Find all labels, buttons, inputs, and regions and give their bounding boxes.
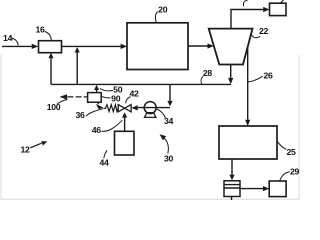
wire separator to box 29 [240, 186, 269, 191]
svg-text:14: 14 [3, 33, 13, 43]
svg-text:30: 30 [164, 154, 174, 164]
wire box 90 to coil arrow [96, 102, 104, 109]
svg-text:16: 16 [35, 25, 45, 35]
pump 34 [144, 102, 156, 118]
svg-text:100: 100 [47, 102, 61, 112]
wire 20 to turbine 22 [188, 43, 214, 48]
leader 90 [102, 96, 110, 98]
box 29 [269, 181, 286, 197]
leader arrow 30 [160, 134, 169, 153]
wire turbine exhaust 28 [228, 65, 233, 85]
turbine 22 [209, 29, 253, 65]
leader 26 [248, 76, 263, 82]
wire valve to box 44, arrow 46 [122, 112, 127, 131]
leader 44 [104, 150, 107, 158]
box 25 [219, 126, 277, 159]
leader 46 [102, 120, 123, 131]
dashed control line 100 [59, 94, 87, 99]
leader 100 [57, 99, 68, 104]
leader 42 [126, 97, 131, 104]
wire 16 to 20 [62, 44, 128, 49]
wire below separator [231, 197, 233, 201]
scan border artifact [1, 55, 299, 199]
svg-text:29: 29 [290, 166, 300, 176]
leader 16 [45, 32, 52, 41]
wire turbine top to box 24 [231, 7, 270, 29]
wire return to main line [75, 47, 80, 84]
box 24 [270, 3, 287, 15]
leader 34 [157, 109, 166, 118]
svg-text:26: 26 [263, 70, 273, 80]
wire return line to pump branch [167, 84, 172, 106]
leader cut off at top edge [243, 0, 247, 6]
svg-text:28: 28 [203, 68, 213, 78]
svg-text:34: 34 [164, 116, 174, 126]
svg-text:44: 44 [99, 157, 109, 167]
wire inlet line 14 [2, 44, 38, 49]
box 20 [127, 23, 188, 70]
wire 25 to separator [229, 159, 234, 180]
wire 26 turbine to box 25 [245, 46, 250, 126]
leader for box 24 label (cut off) [280, 0, 283, 3]
heater coil 36 [104, 105, 119, 112]
leader 36 [86, 109, 103, 117]
leader 14 [11, 38, 18, 45]
svg-text:20: 20 [158, 4, 168, 14]
valve 42 [118, 105, 131, 112]
svg-text:36: 36 [75, 110, 85, 120]
box 16 [39, 41, 62, 53]
wire 50 box 90 to return line [94, 85, 99, 93]
leader 28 [201, 76, 203, 84]
wire pump suction line [138, 107, 170, 109]
leader arrow 12 [30, 141, 47, 148]
leader 20 [155, 12, 157, 23]
wire return line [51, 83, 231, 85]
box 90 [88, 93, 102, 103]
svg-text:25: 25 [286, 147, 296, 157]
separator box 27 [224, 181, 240, 197]
leader 25 [277, 141, 286, 149]
leader 29 [280, 172, 290, 181]
svg-text:46: 46 [92, 125, 102, 135]
svg-text:22: 22 [259, 26, 269, 36]
box 44 [115, 131, 135, 155]
leader 50 [100, 88, 113, 91]
wire return to box 16 [48, 53, 53, 85]
leader 22 [251, 34, 260, 38]
svg-text:12: 12 [20, 145, 30, 155]
wire pump to valve arrow [131, 105, 137, 110]
svg-text:90: 90 [111, 93, 121, 103]
svg-text:42: 42 [129, 88, 139, 98]
